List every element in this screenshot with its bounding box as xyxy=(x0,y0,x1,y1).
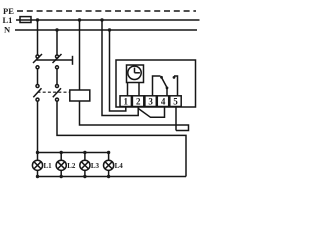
wire coil to t5 xyxy=(80,101,189,131)
clock leg to terminal 1 xyxy=(127,82,129,96)
clock hand minute xyxy=(134,68,136,73)
wire lamp top bus xyxy=(38,152,109,154)
lamp L2 xyxy=(56,160,66,170)
junction dot bus/lamp3 xyxy=(83,151,86,154)
wire lamp4 top stub xyxy=(108,153,110,161)
svg-text:3: 3 xyxy=(148,97,153,107)
timer contact pivot dot xyxy=(166,87,169,90)
wire lamp2 bottom stub xyxy=(60,170,62,176)
wire lamp2 top stub xyxy=(60,153,62,161)
wire L1 bus xyxy=(16,19,200,21)
terminal 5 square xyxy=(170,96,181,107)
contact K1a top terminal xyxy=(36,85,39,88)
terminal 2 square xyxy=(132,96,143,107)
wire lamp1 bottom stub xyxy=(37,170,39,176)
svg-text:L4: L4 xyxy=(115,162,124,170)
svg-text:L1: L1 xyxy=(44,162,53,170)
clock hand hour xyxy=(135,72,140,74)
junction dot bottom/lamp4 xyxy=(107,175,110,178)
contact K1b bottom terminal xyxy=(56,98,59,101)
contact K1b lever xyxy=(53,88,61,97)
wire t5 stub xyxy=(175,107,177,131)
svg-text:5: 5 xyxy=(173,97,178,107)
junction dot L1/colA xyxy=(36,18,39,21)
timer contact fixed 3 hook xyxy=(153,76,161,96)
svg-text:L1: L1 xyxy=(3,15,13,25)
switch S1b lever xyxy=(53,54,62,63)
junction dot bottom/lamp1 xyxy=(36,175,39,178)
wire lamp1 top stub xyxy=(37,153,39,161)
coil K1 xyxy=(70,90,90,101)
lamp L3 xyxy=(80,160,90,170)
timer contact fixed 3 dot xyxy=(160,76,163,79)
switch S1b top terminal xyxy=(56,55,59,58)
fuse F1 xyxy=(20,17,31,23)
svg-text:1: 1 xyxy=(124,97,129,107)
wire lamp bottom bus xyxy=(38,176,187,178)
wire lamp4 bottom stub xyxy=(108,170,110,176)
link K1 dashed mechanical xyxy=(38,91,70,93)
svg-text:4: 4 xyxy=(161,97,166,107)
terminal 1 square xyxy=(120,96,131,107)
wire lamp3 bottom stub xyxy=(84,170,86,176)
wire column B lower xyxy=(57,101,186,176)
wire N to terminal 1 xyxy=(110,30,126,111)
wire column A upper xyxy=(37,20,39,55)
wire lamp3 top stub xyxy=(84,153,86,161)
switch S1a bottom terminal xyxy=(36,66,39,69)
wire column B middle xyxy=(56,69,58,84)
switch S1a top terminal xyxy=(36,55,39,58)
clock leg to terminal 2 xyxy=(138,82,140,96)
junction dot bus/lamp2 xyxy=(60,151,63,154)
junction dot bus/lamp1 xyxy=(36,151,39,154)
junction dot L1/coil feed xyxy=(78,18,81,21)
contact K1a lever xyxy=(33,88,41,97)
timer contact fixed 5 dot xyxy=(173,76,176,79)
wire N bus xyxy=(15,29,197,31)
svg-text:L3: L3 xyxy=(91,162,100,170)
wire column B upper xyxy=(56,30,58,55)
wire column A lower xyxy=(37,101,39,152)
clock circle xyxy=(128,66,141,79)
lamp L4 xyxy=(104,160,114,170)
timer contact fixed 5 hook xyxy=(174,76,178,96)
switch S1 actuator tick xyxy=(72,56,74,65)
wire L1 to terminal 2 xyxy=(102,20,138,116)
junction dot N/colB xyxy=(55,28,58,31)
switch S1b bottom terminal xyxy=(56,66,59,69)
svg-text:L2: L2 xyxy=(67,162,76,170)
clock square xyxy=(127,65,144,83)
contact K1b top terminal xyxy=(56,85,59,88)
wire terminal2 to terminal4 diagonal xyxy=(138,107,164,118)
junction dot bottom/lamp2 xyxy=(60,175,63,178)
timer contact pivot stub xyxy=(166,88,168,96)
timer contact arm xyxy=(161,77,167,88)
contact K1a bottom terminal xyxy=(36,98,39,101)
switch S1 link bar xyxy=(37,59,73,61)
junction dot bus/lamp4 xyxy=(107,151,110,154)
switch S1a lever xyxy=(33,54,42,63)
lamp L1 xyxy=(32,160,42,170)
wire column A middle xyxy=(37,69,39,84)
terminal 3 square xyxy=(145,96,156,107)
junction dot bottom/lamp3 xyxy=(83,175,86,178)
wire PE bus (dashed) xyxy=(17,10,196,12)
svg-text:N: N xyxy=(4,25,11,35)
svg-text:2: 2 xyxy=(136,97,141,107)
junction dot L1/timer feed xyxy=(100,18,103,21)
terminal 4 square xyxy=(157,96,168,107)
wire coil feed upper xyxy=(79,20,81,90)
timer box U1 xyxy=(116,60,196,107)
junction dot N/timer feed xyxy=(108,28,111,31)
